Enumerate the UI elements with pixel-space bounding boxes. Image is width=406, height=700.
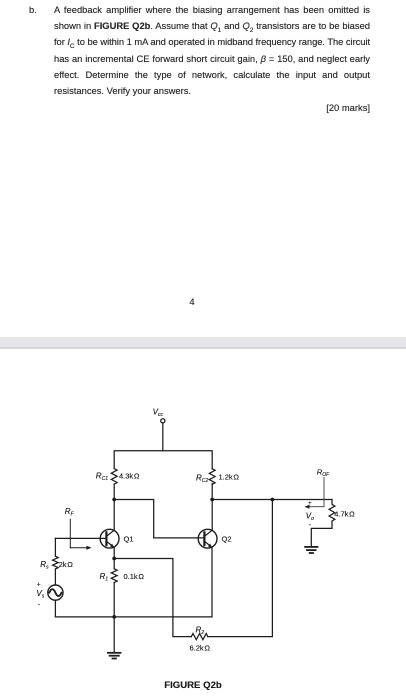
wire Vcc lead <box>162 423 164 451</box>
wire Vs to ground row <box>54 600 56 617</box>
label RC1 <box>96 471 108 482</box>
junction output node <box>271 498 275 502</box>
label R1 value 0.1k ohm <box>124 572 145 581</box>
annotation RF arrow <box>70 519 91 550</box>
wire R1 to ground row <box>113 583 115 652</box>
ground output <box>305 547 317 553</box>
label Vs <box>36 589 44 600</box>
resistor R1 <box>111 569 117 583</box>
label Q1 <box>124 535 134 544</box>
svg-text:Vcc: Vcc <box>153 408 164 419</box>
junction Q2 collector node <box>210 498 214 502</box>
svg-text:6.2kΩ: 6.2kΩ <box>190 644 211 653</box>
ground main <box>108 653 121 659</box>
svg-text:-: - <box>38 601 41 608</box>
label Vo minus <box>309 522 312 529</box>
resistor Rs <box>53 556 59 569</box>
wire R2 to output node <box>208 500 273 637</box>
transistor Q2 <box>198 529 217 548</box>
resistor RC1 <box>111 469 117 485</box>
svg-text:RC1: RC1 <box>96 471 108 482</box>
svg-text:2kΩ: 2kΩ <box>59 560 74 569</box>
label Vcc <box>153 408 164 419</box>
label Vo plus <box>308 500 312 507</box>
junction ground node <box>112 615 116 619</box>
wire top rail <box>114 451 212 469</box>
power terminal Vcc <box>161 419 165 423</box>
source Vs <box>48 585 63 600</box>
label R1 <box>100 572 109 583</box>
label Vs minus <box>38 601 41 608</box>
svg-text:+: + <box>308 500 312 507</box>
label RC2 value 1.2k ohm <box>219 473 240 482</box>
label R2 value 6.2k ohm <box>190 644 211 653</box>
junction Q1 collector node <box>112 498 116 502</box>
svg-text:+: + <box>37 582 41 589</box>
svg-text:4.3kΩ: 4.3kΩ <box>119 471 140 480</box>
junction Q1 emitter node <box>112 557 116 561</box>
annotation ROF arrow <box>304 478 324 509</box>
svg-text:Vs: Vs <box>36 589 44 600</box>
svg-text:0.1kΩ: 0.1kΩ <box>124 572 145 581</box>
wire RC1 to Q1 collector <box>113 484 115 530</box>
label Rs <box>40 560 49 571</box>
svg-text:RC2: RC2 <box>196 473 208 484</box>
svg-text:Vo: Vo <box>306 511 314 522</box>
wire RL bottom to ground <box>311 528 332 546</box>
wire Q1 base <box>55 537 106 539</box>
label ROF <box>317 467 330 478</box>
svg-text:ROF: ROF <box>317 467 330 478</box>
transistor Q1 <box>100 529 119 548</box>
svg-text:R1: R1 <box>100 572 109 583</box>
wire Rs top <box>54 538 56 556</box>
label RC2 <box>196 473 208 484</box>
wire ground row to Q2 emitter <box>55 548 212 617</box>
label R2 <box>196 625 205 636</box>
label RC1 value 4.3k ohm <box>119 471 140 480</box>
label Vs plus <box>37 582 41 589</box>
wire Q1 emitter to node <box>113 548 115 569</box>
resistor RC2 <box>209 469 215 485</box>
svg-text:Rs: Rs <box>40 560 49 571</box>
svg-text:RF: RF <box>65 507 75 518</box>
wire Q1 collector to Q2 base <box>114 500 204 538</box>
wire output <box>212 499 332 501</box>
svg-text:Q2: Q2 <box>222 535 232 544</box>
label RF <box>65 507 75 518</box>
wire Rs to Vs <box>54 569 56 585</box>
svg-text:4.7kΩ: 4.7kΩ <box>334 509 355 518</box>
wire RC2 to Q2 collector <box>211 484 213 531</box>
resistor R2 <box>191 634 208 640</box>
wire feedback Q1 emitter to R2 <box>114 559 191 637</box>
label Rs value 2k ohm <box>59 560 74 569</box>
label Vo <box>306 511 314 522</box>
label Q2 <box>222 535 232 544</box>
label RL value 4.7k ohm <box>334 509 355 518</box>
svg-text:Q1: Q1 <box>124 535 134 544</box>
svg-text:1.2kΩ: 1.2kΩ <box>219 473 240 482</box>
resistor RL 4.7k <box>329 500 335 529</box>
